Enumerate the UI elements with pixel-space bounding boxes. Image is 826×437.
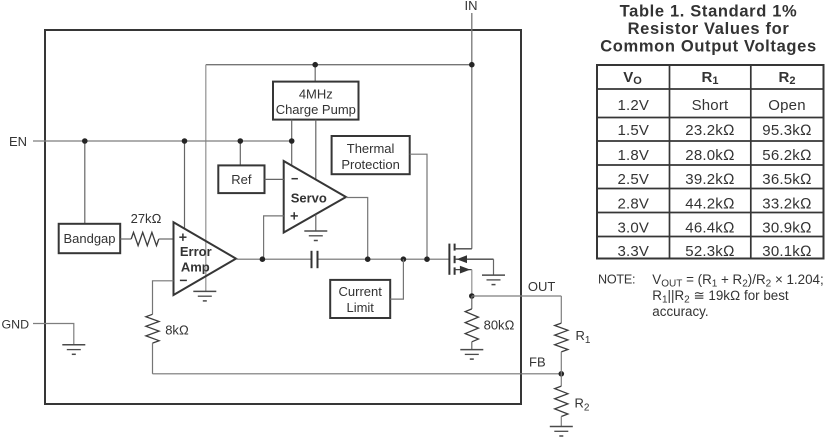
wire OUT horizontal bbox=[472, 295, 562, 297]
resistor 80k zigzag bbox=[465, 309, 478, 342]
svg-text:1.8V: 1.8V bbox=[617, 147, 649, 164]
ground below error amp bbox=[193, 291, 216, 301]
svg-text:1.2V: 1.2V bbox=[617, 97, 649, 114]
wire error amp drop bbox=[184, 141, 186, 229]
svg-text:36.5kΩ: 36.5kΩ bbox=[762, 171, 811, 188]
svg-text:28.0kΩ: 28.0kΩ bbox=[685, 147, 734, 164]
svg-text:3.0V: 3.0V bbox=[617, 219, 649, 236]
IC outer box bbox=[45, 30, 521, 404]
resistor R2 zigzag bbox=[555, 386, 568, 416]
svg-text:Protection: Protection bbox=[341, 157, 400, 172]
svg-text:R2: R2 bbox=[575, 396, 590, 414]
wire current limit link bbox=[390, 259, 403, 299]
wire R1 to FB node bbox=[560, 352, 562, 374]
svg-text:44.2kΩ: 44.2kΩ bbox=[685, 196, 734, 213]
svg-text:Ref: Ref bbox=[231, 172, 252, 187]
svg-text:8kΩ: 8kΩ bbox=[165, 323, 189, 338]
node main/thermal protection bbox=[424, 256, 430, 262]
wire FB node to R2 bbox=[560, 374, 562, 386]
resistor 8k zigzag bbox=[146, 314, 159, 343]
wire servo plus input bbox=[264, 216, 284, 259]
wire charge pump top stub bbox=[314, 65, 316, 82]
node IN / loop junction bbox=[469, 62, 475, 68]
node charge pump top junction bbox=[312, 62, 318, 68]
wire R2 to ground bbox=[560, 417, 562, 427]
node EN/bandgap bbox=[82, 138, 88, 144]
svg-text:VOUT = (R1 + R2)/R2 × 1.204;: VOUT = (R1 + R2)/R2 × 1.204; bbox=[652, 272, 823, 290]
wire thermal protection link bbox=[410, 154, 427, 259]
svg-text:56.2kΩ: 56.2kΩ bbox=[762, 147, 811, 164]
wire resistor to error amp plus bbox=[159, 238, 174, 240]
wire EN horizontal bbox=[33, 140, 292, 142]
wire mosfet body to ground bbox=[493, 259, 495, 275]
node main/servo output bbox=[365, 256, 371, 262]
node EN/error amp bbox=[182, 138, 188, 144]
svg-text:Table 1. Standard 1%: Table 1. Standard 1% bbox=[620, 3, 798, 21]
svg-text:NOTE:: NOTE: bbox=[598, 273, 635, 287]
svg-text:VO: VO bbox=[623, 69, 642, 87]
node EN end junction bbox=[289, 138, 295, 144]
svg-text:2.8V: 2.8V bbox=[617, 196, 649, 213]
svg-text:Thermal: Thermal bbox=[347, 141, 395, 156]
wire FB horizontal bbox=[153, 373, 562, 375]
svg-text:1.5V: 1.5V bbox=[617, 122, 649, 139]
svg-text:FB: FB bbox=[529, 354, 546, 369]
wire drain to OUT node bbox=[471, 270, 473, 296]
svg-text:EN: EN bbox=[9, 134, 27, 149]
svg-text:30.9kΩ: 30.9kΩ bbox=[762, 219, 811, 236]
wire OUT down to R1 bbox=[560, 296, 562, 323]
svg-text:OUT: OUT bbox=[528, 279, 556, 294]
svg-text:Common Output Voltages: Common Output Voltages bbox=[600, 37, 817, 55]
svg-text:Bandgap: Bandgap bbox=[63, 231, 115, 246]
svg-text:4MHz: 4MHz bbox=[299, 87, 333, 102]
svg-text:3.3V: 3.3V bbox=[617, 243, 649, 260]
svg-text:27kΩ: 27kΩ bbox=[131, 211, 162, 226]
transistor Q1 pass PMOS bbox=[449, 244, 493, 275]
svg-text:R1: R1 bbox=[576, 328, 591, 346]
svg-text:2.5V: 2.5V bbox=[617, 171, 649, 188]
svg-text:R1||R2 ≅ 19kΩ for best: R1||R2 ≅ 19kΩ for best bbox=[652, 288, 789, 306]
ground mosfet body bbox=[482, 275, 505, 285]
svg-text:46.4kΩ: 46.4kΩ bbox=[685, 219, 734, 236]
ground below 80k bbox=[460, 350, 483, 360]
resistor 27k zigzag bbox=[131, 232, 159, 245]
svg-text:R2: R2 bbox=[779, 69, 796, 87]
svg-text:Servo: Servo bbox=[291, 190, 327, 205]
wire bandgap to resistor bbox=[120, 238, 131, 240]
svg-text:Open: Open bbox=[768, 97, 806, 114]
block Bandgap bbox=[59, 224, 120, 253]
svg-text:accuracy.: accuracy. bbox=[652, 304, 708, 319]
ground below R2 bbox=[550, 427, 573, 437]
wire top loop vertical (through Error Amp to ground) bbox=[205, 65, 207, 292]
wire ref drop bbox=[239, 141, 241, 165]
svg-text:95.3kΩ: 95.3kΩ bbox=[762, 122, 811, 139]
svg-text:39.2kΩ: 39.2kΩ bbox=[685, 171, 734, 188]
table header bbox=[623, 69, 795, 87]
svg-text:80kΩ: 80kΩ bbox=[484, 317, 515, 332]
capacitor C bbox=[312, 251, 318, 268]
wire servo output bbox=[346, 198, 368, 260]
svg-text:23.2kΩ: 23.2kΩ bbox=[685, 122, 734, 139]
svg-text:30.1kΩ: 30.1kΩ bbox=[762, 243, 811, 260]
wire 80k bottom bbox=[471, 342, 473, 350]
svg-text:Short: Short bbox=[692, 97, 729, 114]
wire charge pump right stub bbox=[315, 120, 317, 180]
svg-text:Resistor Values for: Resistor Values for bbox=[628, 20, 790, 38]
wire main line (error amp out to capacitor) bbox=[236, 258, 312, 260]
ground GND pin bbox=[62, 345, 85, 355]
svg-text:Amp: Amp bbox=[181, 259, 210, 274]
op-amp Servo bbox=[284, 161, 346, 233]
node EN/ref bbox=[238, 138, 244, 144]
wire main line (capacitor to gate) bbox=[318, 258, 450, 260]
svg-text:Limit: Limit bbox=[346, 300, 374, 315]
block Current Limit bbox=[330, 280, 390, 318]
table title bbox=[600, 3, 817, 56]
node main/servo plus bbox=[260, 256, 266, 262]
svg-text:52.3kΩ: 52.3kΩ bbox=[685, 243, 734, 260]
wire error amp minus input bbox=[153, 281, 174, 315]
block Ref bbox=[218, 165, 264, 193]
svg-text:Charge Pump: Charge Pump bbox=[276, 102, 356, 117]
table grid bbox=[597, 65, 824, 259]
svg-text:GND: GND bbox=[2, 317, 30, 331]
node FB/R1/R2 bbox=[559, 371, 565, 377]
wire servo ground stub bbox=[315, 215, 317, 231]
node main/current limit bbox=[401, 256, 407, 262]
wire 80k top bbox=[471, 296, 473, 309]
wire 8k to FB line bbox=[152, 343, 154, 374]
op-amp Error Amp bbox=[174, 222, 237, 295]
note text bbox=[598, 272, 824, 319]
svg-text:Error: Error bbox=[180, 244, 212, 259]
table cells bbox=[617, 97, 811, 260]
wire GND bbox=[33, 324, 74, 345]
svg-text:33.2kΩ: 33.2kΩ bbox=[762, 196, 811, 213]
block 4MHz Charge Pump bbox=[273, 82, 359, 120]
wire servo minus input bbox=[265, 178, 284, 180]
ground below servo bbox=[304, 231, 327, 241]
wire IN vertical bbox=[471, 13, 473, 249]
svg-text:Current: Current bbox=[339, 284, 383, 299]
svg-text:IN: IN bbox=[465, 0, 478, 13]
block Thermal Protection bbox=[332, 136, 410, 174]
wire bandgap drop bbox=[84, 141, 86, 224]
wire top loop horizontal bbox=[206, 64, 472, 66]
resistor R1 zigzag bbox=[555, 323, 568, 352]
node OUT bbox=[469, 293, 475, 299]
wire charge pump left stub bbox=[291, 120, 293, 166]
svg-text:R1: R1 bbox=[702, 69, 719, 87]
